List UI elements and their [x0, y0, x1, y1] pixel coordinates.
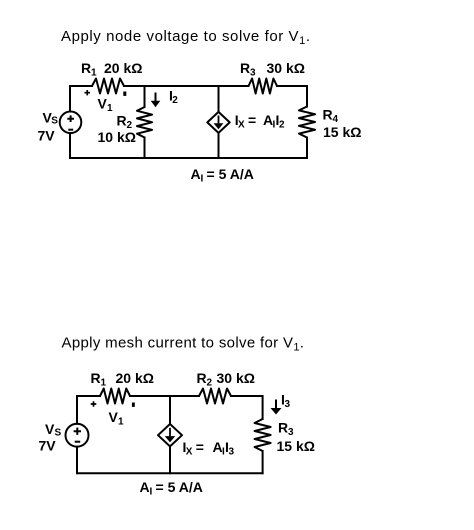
current arrow I2 circuit1 [151, 93, 161, 108]
svg-text:2: 2 [172, 95, 178, 106]
svg-text:= 5 A/A: = 5 A/A [156, 479, 203, 495]
svg-text:V: V [45, 421, 55, 437]
svg-text:7V: 7V [38, 128, 56, 144]
label 7V [38, 128, 56, 144]
voltage source VS 7V circuit1 [60, 112, 82, 134]
label IX = AI I2 circuit1 [235, 112, 285, 131]
svg-text:R: R [91, 370, 101, 386]
resistor R4 circuit1 [299, 107, 315, 138]
current arrow I3 circuit2 [271, 400, 282, 415]
svg-text:1: 1 [118, 416, 124, 427]
wire top-left rail circuit1 [70, 86, 92, 112]
svg-text:1: 1 [107, 103, 113, 114]
svg-text:S: S [51, 116, 58, 127]
svg-text:20 kΩ: 20 kΩ [104, 60, 142, 76]
svg-text:I: I [150, 486, 153, 497]
dependent current source IX circuit1 (diamond) [207, 112, 229, 133]
svg-text:X: X [238, 119, 245, 130]
svg-text:R: R [197, 370, 207, 386]
wire right-bottom rail circuit2 [262, 451, 264, 473]
svg-text:= 5 A/A: = 5 A/A [207, 166, 254, 182]
resistor R2 circuit2 [199, 389, 231, 404]
svg-text:30 kΩ: 30 kΩ [217, 370, 255, 386]
wire top right circuit1 [277, 86, 307, 107]
label V1 circuit1 [98, 96, 114, 115]
label 30 kOhm circuit2 [217, 370, 255, 386]
wire left-bottom rail circuit1 [69, 133, 71, 158]
wire left-bottom rail circuit2 [76, 447, 78, 474]
svg-text:=: = [248, 112, 256, 128]
label 10 kOhm circuit1 [98, 129, 136, 145]
wire bottom rail circuit2 [77, 472, 263, 474]
svg-text:30 kΩ: 30 kΩ [267, 60, 305, 76]
svg-text:V: V [98, 96, 108, 112]
svg-text:R: R [278, 420, 288, 436]
svg-text:15 kΩ: 15 kΩ [277, 438, 315, 454]
svg-text:7V: 7V [39, 437, 57, 453]
label VS circuit2 [45, 421, 62, 439]
label 20 kOhm circuit2 [116, 370, 154, 386]
label 30 kOhm circuit1 [267, 60, 305, 76]
minus polarity tick of V1 circuit1 [123, 92, 126, 96]
svg-text:I: I [201, 173, 204, 184]
label I3 circuit2 [281, 392, 291, 411]
wire top right circuit2 [231, 396, 263, 419]
wire right-bottom rail circuit1 [306, 138, 308, 159]
svg-text:2: 2 [207, 378, 213, 389]
wire below R2 circuit1 [144, 138, 146, 159]
wire top middle circuit1 [124, 85, 249, 87]
label R1 circuit1 [81, 60, 97, 79]
svg-text:Apply node voltage to solve fo: Apply node voltage to solve for V1. [61, 28, 311, 47]
svg-text:1: 1 [91, 68, 97, 79]
label AI = 5 A/A circuit1 [191, 166, 254, 185]
svg-text:=: = [196, 439, 204, 455]
svg-text:A: A [191, 166, 201, 182]
svg-text:1: 1 [101, 378, 107, 389]
label 15 kOhm circuit1 [323, 124, 361, 140]
label VS [43, 110, 59, 127]
wire node branch to dependent source circuit1 [218, 86, 220, 112]
voltage source VS 7V circuit2 [66, 424, 89, 447]
label 20 kOhm circuit1 [104, 60, 142, 76]
resistor R2 circuit1 [137, 107, 152, 138]
label 7V circuit2 [39, 437, 57, 453]
wire top-left rail circuit2 [77, 396, 100, 424]
label R3 circuit2 [278, 420, 294, 439]
svg-text:3: 3 [229, 447, 235, 458]
svg-text:10 kΩ: 10 kΩ [98, 129, 136, 145]
plus polarity of V1 circuit1 [85, 90, 91, 95]
wire below dependent source circuit2 [169, 446, 171, 473]
label R2 circuit1 [117, 113, 133, 132]
dependent current source IX circuit2 (diamond) [158, 424, 182, 446]
resistor R3 circuit1 [249, 79, 278, 94]
wire node branch to dependent source circuit2 [169, 396, 171, 424]
svg-text:3: 3 [288, 427, 294, 438]
label IX = AI I3 circuit2 [183, 439, 235, 458]
svg-text:2: 2 [279, 119, 285, 130]
svg-text:3: 3 [250, 68, 256, 79]
svg-text:R: R [240, 60, 250, 76]
wire top middle circuit2 [130, 395, 199, 397]
wire node branch to R2 circuit1 [144, 86, 146, 107]
title: Apply node voltage to solve for V1. [61, 28, 311, 47]
title: Apply mesh current to solve for V1. [62, 335, 305, 354]
svg-text:V: V [109, 409, 119, 425]
svg-text:15 kΩ: 15 kΩ [323, 124, 361, 140]
label V1 circuit2 [109, 409, 125, 428]
svg-text:3: 3 [285, 399, 291, 410]
svg-text:X: X [186, 447, 193, 458]
label R2 circuit2 [197, 370, 213, 389]
resistor R1 circuit2 [100, 389, 130, 404]
wire bottom rail circuit1 [70, 157, 307, 159]
svg-text:20 kΩ: 20 kΩ [116, 370, 154, 386]
svg-text:R: R [117, 113, 127, 129]
wire below dependent source circuit1 [218, 133, 220, 158]
resistor R3 circuit2 [255, 419, 271, 451]
label I2 circuit1 [169, 88, 178, 107]
svg-text:Apply mesh current to solve fo: Apply mesh current to solve for V1. [62, 335, 305, 354]
label 15 kOhm circuit2 [277, 438, 315, 454]
svg-text:R: R [81, 60, 91, 76]
svg-text:A: A [140, 479, 150, 495]
label AI = 5 A/A circuit2 [140, 479, 203, 498]
label R1 circuit2 [91, 370, 107, 389]
plus polarity of V1 circuit2 [91, 401, 97, 407]
minus polarity tick of V1 circuit2 [132, 403, 135, 407]
resistor R1 circuit1 [92, 79, 124, 94]
label R3 circuit1 [240, 60, 256, 79]
label R4 [323, 107, 339, 126]
svg-text:R: R [323, 107, 333, 123]
